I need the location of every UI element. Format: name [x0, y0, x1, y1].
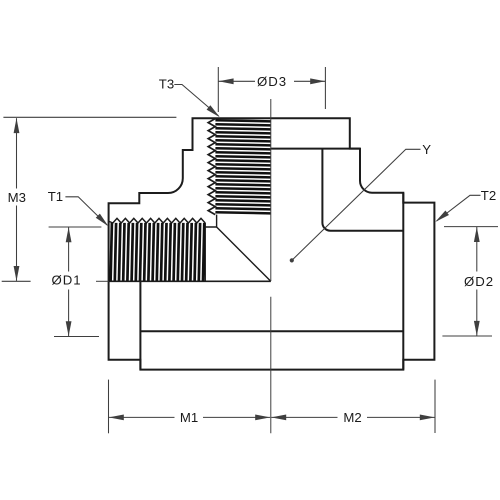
Y leader line — [292, 149, 420, 260]
M1 arrowheads — [109, 415, 270, 421]
M3 arrowheads — [14, 118, 20, 281]
M3 extension line bottom — [2, 280, 31, 282]
label M3 — [8, 190, 26, 205]
bore chamfer cone — [217, 227, 271, 281]
M3 dimension line — [16, 118, 18, 281]
D2 dimension line — [476, 227, 478, 336]
svg-text:M2: M2 — [343, 410, 361, 425]
svg-text:M3: M3 — [8, 190, 26, 205]
label T1 — [48, 189, 63, 204]
svg-text:ØD1: ØD1 — [51, 272, 81, 287]
vertical centerline lower — [270, 297, 272, 434]
svg-text:M1: M1 — [180, 410, 198, 425]
D3 extension line right — [324, 67, 326, 109]
label D1 — [51, 272, 81, 287]
M2 extension line — [434, 380, 436, 433]
thread runout step — [205, 215, 216, 227]
T1 arrowhead — [96, 214, 111, 229]
D1 dimension line — [68, 227, 70, 336]
D3 extension line left — [217, 67, 219, 112]
label T2 — [481, 188, 496, 203]
svg-text:Y: Y — [422, 142, 431, 157]
D2 arrowheads — [474, 227, 480, 336]
vertical centerline upper — [270, 99, 272, 281]
T3 arrowhead — [207, 105, 222, 119]
label D3 — [257, 74, 287, 89]
label M1 — [180, 410, 198, 425]
svg-text:T1: T1 — [48, 189, 63, 204]
D2 extension line bottom — [442, 335, 492, 337]
label D2 — [464, 274, 494, 289]
M2 arrowheads — [271, 415, 435, 421]
lower hex corner edge — [140, 330, 403, 332]
T2 leader line — [437, 195, 481, 221]
svg-text:ØD2: ØD2 — [464, 274, 494, 289]
left port thread flanks — [111, 223, 205, 281]
left port thread right boundary — [204, 223, 206, 281]
T3 leader line — [174, 85, 218, 116]
M1 extension line — [108, 380, 110, 434]
D1 extension line bottom — [54, 336, 99, 338]
D1 extension line top — [49, 226, 102, 228]
label Y — [422, 142, 431, 157]
D3 dimension line — [219, 80, 326, 82]
horizontal centerline tick — [96, 280, 109, 282]
label T3 — [159, 76, 174, 91]
svg-text:T3: T3 — [159, 76, 174, 91]
section plane line — [109, 280, 271, 282]
Y leader dot — [290, 258, 294, 262]
right end cap boundary edge — [402, 193, 404, 370]
M3 extension line top — [3, 116, 176, 118]
T1 leader line — [65, 197, 107, 225]
left port thread crest profile T1 — [109, 218, 205, 223]
D1 arrowheads — [66, 227, 72, 336]
top boss blend edge with fillet — [322, 149, 403, 231]
top port thread crest profile T3 — [208, 119, 215, 215]
T2 arrowhead — [434, 210, 449, 224]
D3 arrowheads — [219, 78, 326, 84]
tee fitting body outline — [109, 118, 435, 369]
M1 dimension line — [109, 416, 270, 418]
left end cap boundary edge — [139, 281, 141, 369]
svg-text:T2: T2 — [481, 188, 496, 203]
top port thread flanks — [215, 120, 270, 213]
svg-text:ØD3: ØD3 — [257, 74, 287, 89]
label M2 — [343, 410, 361, 425]
M2 dimension line — [271, 416, 435, 418]
D2 extension line top — [444, 226, 498, 228]
shoulder edge of top end cap — [271, 148, 360, 150]
